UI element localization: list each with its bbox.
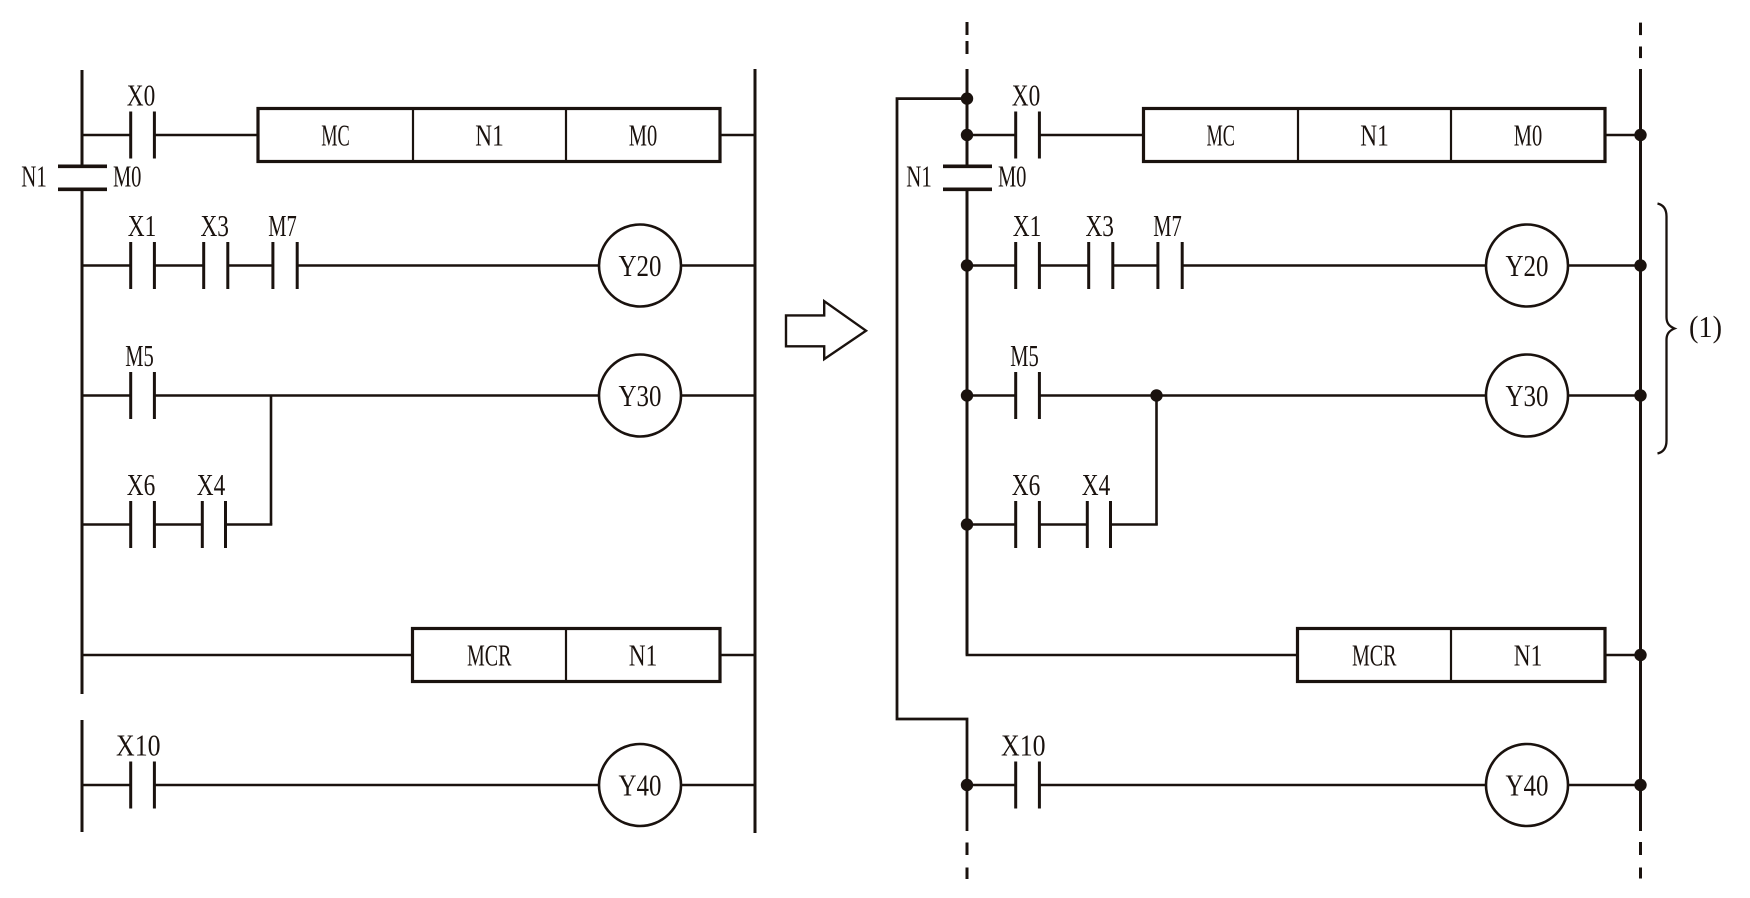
wire: M5 to coil Y30: [154, 394, 599, 397]
wire: left rail to X6: [82, 523, 131, 526]
wire: X6 to X4 (right): [1039, 523, 1087, 526]
wire: coil Y40 to right rail: [681, 784, 755, 787]
contact X4: [197, 467, 226, 548]
svg-text:Y30: Y30: [619, 378, 662, 413]
svg-text:N1: N1: [475, 118, 504, 153]
svg-text:N1: N1: [21, 159, 47, 194]
svg-text:X4: X4: [197, 467, 226, 502]
wire: X0 to MC box (right): [1039, 134, 1143, 137]
contact X10 (right): [1001, 728, 1046, 809]
svg-text:MC: MC: [321, 118, 350, 153]
coil Y40 (right): [1486, 744, 1568, 826]
contact X6 (right): [1012, 467, 1041, 548]
svg-text:MCR: MCR: [1352, 638, 1397, 673]
junction: rung 4 at left bus: [961, 518, 973, 530]
label (1): [1689, 309, 1722, 344]
instruction box MC N1 M0 (right): [1144, 109, 1606, 162]
junction: bypass at left bus: [961, 92, 973, 104]
wire: left bus to X1 (right): [967, 264, 1016, 267]
svg-text:MC: MC: [1207, 118, 1236, 153]
junction: rung 3 at left bus: [961, 389, 973, 401]
svg-text:X3: X3: [200, 208, 229, 243]
wire: coil Y30 to right rail: [681, 394, 755, 397]
wire: X1 to X3: [154, 264, 203, 267]
contact M7: [268, 208, 297, 289]
wire: left bus to X6 (right): [967, 523, 1016, 526]
junction: rung 1 at left bus: [961, 129, 973, 141]
junction: rung 5 at right bus: [1634, 649, 1646, 661]
wire: coil Y20 to right rail: [681, 264, 755, 267]
brace marking zone (1): [1658, 204, 1675, 454]
svg-text:M7: M7: [1153, 208, 1182, 243]
contact X3: [200, 208, 229, 289]
svg-text:X6: X6: [1012, 467, 1041, 502]
svg-text:N1: N1: [629, 638, 658, 673]
svg-text:X4: X4: [1082, 467, 1111, 502]
wire: X1 to X3 (right): [1039, 264, 1088, 267]
svg-text:Y40: Y40: [619, 768, 662, 803]
junction: rung 1 at right bus: [1634, 129, 1646, 141]
svg-text:X0: X0: [1012, 78, 1041, 113]
instruction box MCR N1: [413, 629, 721, 682]
wire: left bus corner to MCR box (right): [966, 654, 1298, 657]
contact X0 (right): [1012, 78, 1041, 159]
contact M7 (right): [1153, 208, 1182, 289]
wire: coil Y40 to right bus: [1568, 784, 1641, 787]
wire: M7 to coil Y20 (right): [1182, 264, 1486, 267]
right ladder: right bus: [1639, 69, 1642, 831]
contact X4 (right): [1082, 467, 1111, 548]
right ladder: right bus dashed bottom: [1639, 842, 1642, 879]
junction: rung 2 at left bus: [961, 259, 973, 271]
wire: X4 to branch riser: [226, 523, 273, 526]
coil Y30: [599, 355, 681, 437]
right ladder: left bus: [966, 69, 969, 655]
svg-text:N1: N1: [1360, 118, 1389, 153]
wire: MC box to right rail: [720, 134, 755, 137]
svg-text:M0: M0: [113, 159, 142, 194]
junction: rung 6 at right bus: [1634, 779, 1646, 791]
svg-text:Y20: Y20: [619, 248, 662, 283]
wire: left rail to MCR box: [82, 654, 413, 657]
wire: left bus to M5 (right): [967, 394, 1016, 397]
svg-text:M7: M7: [268, 208, 297, 243]
wire: X3 to M7: [228, 264, 273, 267]
svg-text:M0: M0: [1514, 118, 1543, 153]
right ladder: right bus dashed top: [1639, 23, 1642, 59]
left ladder: right power rail: [754, 69, 757, 833]
instruction box MC N1 M0: [258, 109, 720, 162]
wire: X10 to coil Y40 (right): [1039, 784, 1486, 787]
svg-text:(1): (1): [1689, 309, 1722, 344]
svg-text:Y30: Y30: [1506, 378, 1549, 413]
left ladder: left power rail: [81, 70, 84, 832]
wire: coil Y20 to right bus: [1568, 264, 1641, 267]
wire: X4 to branch riser (right): [1111, 523, 1158, 526]
wire: parallel branch riser: [270, 396, 273, 525]
svg-text:M0: M0: [998, 159, 1027, 194]
wire: left rail to X10: [82, 784, 131, 787]
coil Y30 (right): [1486, 355, 1568, 437]
svg-text:X1: X1: [1013, 208, 1042, 243]
block arrow between diagrams: [786, 301, 866, 359]
wire: left rail to M5: [82, 394, 131, 397]
wire: MCR box to right bus: [1605, 654, 1641, 657]
wire: MCR box to right rail: [720, 654, 755, 657]
contact X3 (right): [1085, 208, 1114, 289]
wire: X0 to MC box: [154, 134, 258, 137]
right ladder: left bus dashed top: [966, 22, 969, 54]
wire: X3 to M7 (right): [1113, 264, 1158, 267]
wire: X10 to coil Y40: [154, 784, 599, 787]
wire: bypass bus to X10 (right): [967, 784, 1016, 787]
coil Y20: [599, 225, 681, 307]
contact M5: [125, 338, 154, 419]
instruction box MCR N1 (right): [1298, 629, 1606, 682]
wire: X6 to X4: [154, 523, 202, 526]
master-control contact N1/M0 on left rail: [21, 159, 141, 194]
wire: M5 to coil Y30 (right): [1039, 394, 1486, 397]
contact X1: [128, 208, 157, 289]
master-control contact N1/M0 on right ladder bus: [906, 159, 1026, 194]
left bus dashed bottom: [966, 843, 969, 880]
svg-text:M5: M5: [125, 338, 154, 373]
junction: rung 6 at bypass bus: [961, 779, 973, 791]
junction: rung 2 at right bus: [1634, 259, 1646, 271]
svg-text:N1: N1: [906, 159, 932, 194]
svg-text:X3: X3: [1085, 208, 1114, 243]
junction: branch riser at rung 3: [1150, 389, 1162, 401]
wire: MC box to right bus: [1605, 134, 1641, 137]
contact X1 (right): [1013, 208, 1042, 289]
svg-text:X10: X10: [1001, 728, 1046, 763]
coil Y20 (right): [1486, 225, 1568, 307]
contact X0: [127, 78, 156, 159]
contact M5 (right): [1010, 338, 1039, 419]
contact X6: [127, 467, 156, 548]
svg-text:X10: X10: [116, 728, 161, 763]
wire: left rail to X0: [82, 134, 131, 137]
svg-text:N1: N1: [1514, 638, 1543, 673]
svg-text:X0: X0: [127, 78, 156, 113]
wire: coil Y30 to right bus: [1568, 394, 1641, 397]
wire: parallel branch riser (right): [1155, 396, 1158, 525]
svg-text:M0: M0: [629, 118, 658, 153]
wire: M7 to coil Y20: [297, 264, 599, 267]
wire: left bus to X0: [967, 134, 1016, 137]
svg-text:Y20: Y20: [1506, 248, 1549, 283]
coil Y40: [599, 744, 681, 826]
svg-text:X1: X1: [128, 208, 157, 243]
bypass wire around master-control zone: [897, 99, 967, 831]
svg-text:X6: X6: [127, 467, 156, 502]
wire: left rail to X1: [82, 264, 131, 267]
svg-text:Y40: Y40: [1506, 768, 1549, 803]
svg-text:MCR: MCR: [467, 638, 512, 673]
junction: rung 3 at right bus: [1634, 389, 1646, 401]
contact X10: [116, 728, 161, 809]
svg-text:M5: M5: [1010, 338, 1039, 373]
